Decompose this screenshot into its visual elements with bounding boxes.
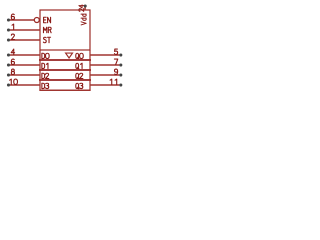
pin 1 end dot <box>7 28 10 31</box>
pin 7 wire (Q1) <box>90 64 119 66</box>
pin 11 wire (Q3) <box>90 84 119 86</box>
pin 6 wire (EN) <box>10 19 34 21</box>
pin number 2 <box>11 34 14 39</box>
pin 4 end dot <box>7 53 10 56</box>
pin 10 end dot <box>7 83 10 86</box>
pin 6 end dot <box>7 18 10 21</box>
pin 6 wire (D1) <box>10 64 40 66</box>
pin 5 end dot <box>119 53 122 56</box>
latch cells frame: bottom edge <box>39 89 90 91</box>
latch cells frame: right edge <box>89 50 91 91</box>
cell divider 2 <box>39 69 91 71</box>
latch cells frame: left edge <box>39 50 41 91</box>
pin name D2 <box>42 73 49 78</box>
pin name MR <box>43 27 51 33</box>
pin name Q2 <box>76 73 83 79</box>
pin number 9 <box>114 69 117 74</box>
pin number 8 <box>11 69 14 74</box>
pin 9 wire (Q2) <box>90 74 119 76</box>
pin number 5 <box>114 49 117 54</box>
pin number 1 <box>12 24 14 29</box>
pin 8 wire (D2) <box>10 74 40 76</box>
pin name ST <box>43 37 50 43</box>
open-drain marker triangle <box>66 53 73 58</box>
pin number 11 <box>110 79 117 84</box>
pin 7 end dot <box>119 63 122 66</box>
pin number 10 <box>10 79 18 84</box>
pin number 6 <box>11 59 14 64</box>
pin name Vdd <box>81 14 86 25</box>
pin name EN <box>44 17 51 23</box>
pin number 4 <box>11 49 14 54</box>
pin 1 wire (MR) <box>10 29 40 31</box>
pin name Q3 <box>76 83 83 89</box>
pin 5 wire (Q0) <box>90 54 119 56</box>
IC U1 body: control block <box>40 10 90 50</box>
pin 2 wire (ST) <box>10 39 40 41</box>
pin name D3 <box>42 83 49 88</box>
cell divider 1 <box>39 59 91 61</box>
pin name D1 <box>42 63 48 68</box>
pin number 6 <box>11 14 14 19</box>
pin 10 wire (D3) <box>10 84 40 86</box>
pin 24 wire (Vdd power) <box>84 6 86 11</box>
EN inversion bubble <box>34 18 39 23</box>
pin 11 end dot <box>119 83 122 86</box>
pin 9 end dot <box>119 73 122 76</box>
pin 24 end dot <box>84 4 87 7</box>
pin name Q1 <box>76 63 82 69</box>
pin 4 wire (D0) <box>10 54 40 56</box>
pin 6 end dot <box>7 63 10 66</box>
pin number 7 <box>114 59 117 64</box>
pin 8 end dot <box>7 73 10 76</box>
pin name D0 <box>42 53 49 58</box>
pin number 24 <box>79 5 84 11</box>
pin 2 end dot <box>7 38 10 41</box>
cell divider 3 <box>39 79 91 81</box>
pin name Q0 <box>76 53 84 59</box>
